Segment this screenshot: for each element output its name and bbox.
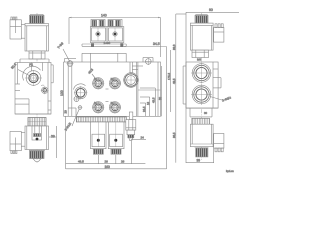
left bellows <box>15 114 51 126</box>
right bottom coil <box>190 124 213 147</box>
svg-text:43.5: 43.5 <box>172 78 176 84</box>
svg-text:140: 140 <box>101 13 107 17</box>
R1/2 leader text <box>10 62 31 76</box>
dimension 140 <box>69 13 161 57</box>
bottom solenoid B <box>108 122 124 149</box>
port E <box>92 101 104 113</box>
left top knurled cap <box>30 14 45 23</box>
svg-text:160: 160 <box>105 165 111 169</box>
dim 39 right <box>186 60 214 163</box>
2-phi3/4 leader <box>210 96 232 103</box>
svg-text:26: 26 <box>121 159 125 163</box>
svg-text:2-Φ8: 2-Φ8 <box>104 41 111 45</box>
left top connector <box>10 20 25 39</box>
svg-text:7-Φ9: 7-Φ9 <box>57 41 65 49</box>
right circle 1 <box>191 63 212 84</box>
svg-text:90: 90 <box>209 8 213 12</box>
svg-text:2-Φ1/2: 2-Φ1/2 <box>64 121 73 131</box>
left bottom connector pins <box>11 151 17 154</box>
port A <box>74 86 87 99</box>
port P1 boss <box>23 66 41 80</box>
port P1 <box>25 70 42 86</box>
bottom dims <box>66 116 146 169</box>
right bottom connector pins <box>215 148 223 152</box>
svg-text:43.5: 43.5 <box>152 97 156 103</box>
top solenoid B <box>107 27 124 43</box>
svg-text:24.5: 24.5 <box>142 106 146 112</box>
right stacked dims <box>140 103 146 116</box>
right bottom knurled cap <box>195 147 209 157</box>
svg-text:80: 80 <box>158 96 162 100</box>
right tube nut <box>192 50 209 57</box>
svg-text:hyd.cn: hyd.cn <box>226 169 234 173</box>
left valve body <box>15 59 53 114</box>
port D big <box>123 62 143 88</box>
svg-text:39: 39 <box>197 159 201 163</box>
port F <box>109 101 121 113</box>
dim 175.5 <box>167 50 171 112</box>
bottom solenoid A <box>91 122 107 149</box>
svg-text:26: 26 <box>105 159 109 163</box>
tie rod band <box>82 43 126 47</box>
small hole H1 <box>74 96 80 102</box>
dim 24 relief <box>131 135 146 139</box>
svg-text:M6: M6 <box>197 58 201 62</box>
2-phi1/2 leader <box>64 110 79 132</box>
svg-text:93.8: 93.8 <box>172 44 176 50</box>
svg-text:2-Φ3/4: 2-Φ3/4 <box>221 96 231 103</box>
port B <box>92 77 104 89</box>
bottom solenoid B terminal <box>110 149 122 154</box>
bottom solenoid A terminal <box>93 149 105 154</box>
dim 90 top <box>186 8 239 60</box>
top solenoid A cap <box>91 20 105 27</box>
right top knurled cap <box>195 14 208 23</box>
phi leader <box>87 68 97 81</box>
right body bottom step <box>186 108 218 117</box>
relief valve <box>126 112 136 141</box>
port C <box>109 77 121 89</box>
right top connector <box>213 28 224 43</box>
small hole G <box>78 105 83 110</box>
body internal lines <box>68 62 160 116</box>
right circle 2 <box>191 84 212 105</box>
right mounting tab <box>143 58 153 66</box>
right bellows <box>192 118 210 124</box>
svg-text:16: 16 <box>146 101 150 105</box>
svg-text:30: 30 <box>204 111 208 115</box>
left bottom knurled cap <box>29 150 45 161</box>
dim 34.5 <box>124 42 167 47</box>
top solenoid B cap <box>108 20 122 27</box>
right bottom connector <box>214 134 224 149</box>
right view centerline <box>201 13 203 161</box>
dim 160 <box>66 47 167 170</box>
svg-text:96.5: 96.5 <box>172 132 176 138</box>
manifold body <box>68 53 160 116</box>
7-phi9 leader <box>57 41 70 62</box>
left bottom connector <box>10 132 25 151</box>
left tube nut <box>29 51 45 59</box>
svg-text:34.5: 34.5 <box>153 42 160 46</box>
port A boss <box>74 84 86 90</box>
dim 100 left <box>60 62 68 116</box>
svg-text:20: 20 <box>64 110 68 114</box>
svg-text:46.5: 46.5 <box>78 159 84 163</box>
svg-text:24: 24 <box>141 135 145 139</box>
left bottom coil <box>25 126 49 150</box>
right top coil <box>190 23 213 50</box>
right top connector pins <box>215 24 223 28</box>
left top connector pins <box>11 17 17 20</box>
svg-text:39: 39 <box>51 135 55 139</box>
bottom mounting band <box>76 116 126 122</box>
top solenoid A <box>90 27 107 43</box>
svg-text:P1: P1 <box>29 63 33 67</box>
right valve body <box>183 62 221 108</box>
left small port <box>41 86 49 94</box>
dim 39 left <box>49 126 57 158</box>
svg-text:175.5: 175.5 <box>167 73 171 80</box>
left mounting tab <box>65 59 77 68</box>
svg-text:100: 100 <box>60 90 64 96</box>
left view centerline <box>36 13 38 163</box>
right left dims <box>172 14 176 62</box>
left top coil body <box>25 24 49 52</box>
